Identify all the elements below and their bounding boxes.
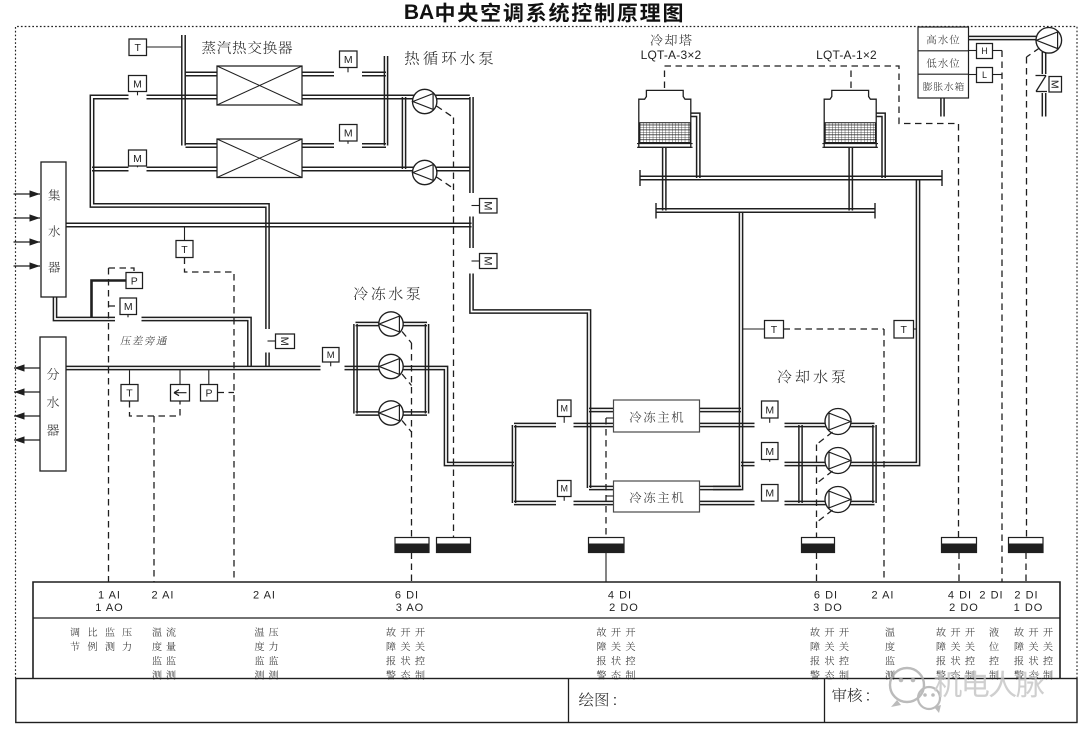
motor valve M HX1 steam (340, 51, 358, 72)
steam heat exchanger 2 (217, 139, 302, 178)
IO count col10 (1014, 590, 1044, 615)
svg-text:M: M (1049, 80, 1061, 89)
IO desc col3 温度压力监测 (255, 627, 278, 679)
motor valve M condenser 1 (762, 401, 779, 423)
svg-text::: : (613, 692, 617, 709)
temperature sensor T distributor (121, 370, 138, 401)
HX1 outlet pipe to pump 1 (302, 95, 470, 98)
hot return pipe to HX1 w/ valve gap (90, 95, 269, 329)
IO desc col7 温度监测 (885, 627, 895, 679)
expansion make-up pump (1036, 28, 1062, 54)
expansion tank drain stub (941, 98, 944, 117)
chiller 1 return stub (589, 408, 614, 411)
DDC bar chillers (589, 538, 625, 583)
HX2 outlet pipe to pump 2 (302, 167, 470, 170)
motor valve M condenser mid (762, 443, 779, 462)
label 压差旁通 (120, 336, 167, 346)
pressure sensor P distributor (201, 370, 218, 401)
control line hot pumps to DDC (437, 106, 454, 538)
IO count col2 (152, 590, 175, 602)
svg-text:M: M (278, 337, 290, 346)
chilled pump A pipe (356, 322, 428, 325)
chiller 2 inlet pipe w/ valve gap (514, 501, 614, 504)
chilled pump group left manifold (354, 324, 357, 414)
hot pump header lower (470, 274, 591, 489)
svg-text:T: T (135, 42, 142, 54)
svg-text:L: L (982, 70, 987, 80)
DDC bar cooling pumps (802, 538, 835, 583)
motor valve M chilled main (323, 348, 340, 367)
hot pump header upper (470, 97, 473, 193)
control line H/L sensors to DDC (1001, 51, 1003, 583)
label 冷冻水泵 (354, 287, 420, 301)
svg-text:T: T (126, 388, 133, 400)
svg-text:2 AI: 2 AI (152, 590, 175, 602)
chilled supply main pipe after valve (345, 366, 515, 465)
pressure sensor P bypass (92, 273, 143, 318)
chilled pump A (379, 312, 403, 336)
hot circulation pump 2 (413, 160, 437, 184)
label LQT-A-3x2 (641, 48, 702, 62)
IO desc col8 (936, 627, 975, 679)
DDC bar cooling towers (942, 538, 977, 583)
IO count col5 (608, 590, 639, 615)
HX1 top pipe left (186, 72, 218, 75)
cooling pump 1 pipe (801, 423, 875, 426)
svg-text:2 DI: 2 DI (1014, 590, 1038, 602)
cooling pump 2 (825, 448, 851, 474)
IO count col4 (395, 590, 424, 615)
svg-text:6 DI: 6 DI (395, 590, 419, 602)
expansion pump down pipe lower (1042, 93, 1045, 117)
svg-text:T: T (901, 324, 908, 336)
cooling tower 1 LQT-A-3 (637, 90, 693, 147)
svg-text:M: M (481, 201, 493, 210)
expansion tank box (918, 27, 969, 98)
control line distributor T/F to DDC (130, 401, 181, 582)
temperature sensor T steam (129, 39, 182, 56)
collector return pipe (66, 223, 472, 226)
L level sensor (969, 68, 1003, 83)
temperature sensor T tower supply (894, 321, 916, 339)
IO desc col4 故障报警开关状态控制 (386, 627, 425, 679)
HX2 top pipe right w/ valve gap (302, 144, 386, 147)
pump suction cross pipe (402, 97, 405, 169)
cooling pump 3 pipe (801, 501, 875, 504)
steam riser pipe to T (182, 35, 185, 146)
motor valve M chiller 2 inlet (558, 481, 572, 501)
steam riser 2 (384, 56, 387, 146)
DDC bar expansion pump (1009, 538, 1044, 583)
check valve (1036, 76, 1048, 92)
motor valve M condenser 2 (762, 485, 779, 502)
cooling pump 1 (825, 409, 851, 435)
svg-text:P: P (131, 275, 138, 287)
chilled pump C pipe (356, 412, 428, 415)
distributor 分水器 box (40, 337, 66, 471)
svg-text:M: M (133, 78, 142, 90)
svg-text:4 DI: 4 DI (608, 590, 632, 602)
cooling pump group left manifold (799, 425, 802, 503)
cooling pump 3 (825, 487, 851, 513)
cooling pump group right manifold (873, 425, 876, 503)
motor valve M header lower (472, 254, 498, 269)
cooling tower 2 LQT-A-1 (822, 90, 878, 147)
DDC bar hot pumps (437, 538, 471, 553)
motor valve M HX1 supply (129, 76, 147, 96)
control line bypass P/M to DDC (109, 268, 135, 582)
svg-text:2 AI: 2 AI (253, 590, 276, 602)
svg-text:M: M (765, 488, 774, 500)
IO count col6 (813, 590, 843, 615)
chilled pump group right manifold (425, 324, 428, 414)
collector inlet arrows (14, 190, 41, 269)
header 2 end caps (656, 203, 875, 219)
svg-text:M: M (124, 301, 133, 313)
chiller inlet manifold (512, 425, 515, 503)
chiller 2 condenser stub (700, 486, 742, 489)
temperature sensor T collector (176, 227, 193, 257)
chiller 1 冷冻主机 (614, 400, 700, 432)
svg-text:1 AI: 1 AI (98, 590, 121, 602)
svg-text:M: M (327, 350, 335, 361)
svg-text:4 DI: 4 DI (948, 590, 972, 602)
chiller 2 condenser outlet w/ valve gap (700, 501, 801, 504)
condenser riser (713, 212, 743, 490)
svg-text:1 DO: 1 DO (1014, 602, 1044, 614)
svg-text:2 DI: 2 DI (979, 590, 1003, 602)
svg-text:M: M (561, 484, 569, 494)
label LQT-A-1x2 (816, 48, 877, 62)
hot pump header middle (470, 217, 473, 249)
watermark 机电人脉 logo (890, 668, 1044, 713)
cooling pump 2 pipe / discharge (801, 179, 920, 466)
svg-text:P: P (205, 388, 212, 400)
cooling tower return header (656, 209, 875, 212)
motor valve M hot side (268, 334, 295, 349)
svg-text:3 AO: 3 AO (396, 602, 424, 614)
collector 集水器 box (41, 162, 66, 297)
motor valve M HX2 supply (129, 150, 147, 167)
label 冷却塔 (651, 34, 692, 46)
svg-text:T: T (771, 324, 778, 336)
cooling tower supply header (640, 176, 942, 179)
chiller 1 inlet pipe w/ valve gap (514, 423, 614, 426)
tower 1 outlet pipe (691, 113, 700, 178)
IO desc col1 调节比例监测压力 (70, 627, 131, 651)
control line chilled pumps to DDC (402, 332, 412, 538)
IO desc col10 (1014, 627, 1053, 679)
IO desc col9 液位控制 (989, 627, 999, 679)
H level sensor (969, 44, 1003, 59)
control line collector T / P to DDC (185, 258, 235, 583)
label 蒸汽热交换器 (202, 41, 292, 54)
expansion pump valve M (1049, 77, 1062, 93)
svg-text:BA: BA (404, 1, 434, 24)
chiller 2 冷冻主机 (614, 481, 700, 512)
chiller 1 condenser outlet w/ valve gap (700, 423, 801, 426)
svg-text:LQT-A-3×2: LQT-A-3×2 (641, 48, 702, 62)
IO table frame (33, 582, 1060, 679)
DDC bar chilled pumps (395, 538, 429, 583)
svg-text:2 DO: 2 DO (609, 602, 639, 614)
IO desc col6 (810, 627, 849, 679)
hot side valve pipe segment (266, 353, 269, 367)
control line chillers to DDC (606, 418, 614, 538)
svg-text:M: M (765, 446, 774, 458)
svg-text:2 AI: 2 AI (872, 590, 895, 602)
svg-text:M: M (344, 54, 353, 66)
steam heat exchanger 1 (217, 66, 302, 105)
IO count col9 (979, 590, 1003, 602)
chilled supply main pipe (66, 366, 321, 369)
svg-text:M: M (765, 404, 774, 416)
flow switch distributor (171, 370, 190, 401)
control line expansion pump to DDC (1027, 48, 1040, 538)
header 1 end caps (640, 170, 942, 186)
distributor outlet arrows (14, 364, 40, 443)
control line cooling pumps to DDC (817, 432, 833, 538)
IO desc col5 (597, 627, 636, 679)
tower 2 outlet pipe (876, 113, 885, 178)
condenser middle pipe w/ valve gap (741, 462, 801, 465)
svg-text::: : (866, 688, 870, 705)
hot supply branch pipe to HX2 w/ valve gap (92, 167, 217, 170)
IO count col7 (872, 590, 895, 602)
hot circulation pump 1 (413, 89, 437, 113)
svg-text:LQT-A-1×2: LQT-A-1×2 (816, 48, 877, 62)
motor valve M chiller 1 inlet (558, 400, 572, 423)
expansion tank outlet pipe (969, 36, 1038, 39)
collector bottom pipe w/ bypass valve gap (53, 297, 251, 366)
svg-text:3 DO: 3 DO (813, 602, 843, 614)
label 热循环水泵 (405, 51, 493, 65)
label 审核 (832, 688, 870, 705)
svg-text:M: M (133, 153, 142, 165)
title BA中央空调系统控制原理图 (404, 1, 682, 24)
control line cooling towers to DDC (665, 66, 959, 538)
control line condenser T sensors to DDC (784, 329, 885, 582)
svg-text:H: H (981, 46, 988, 56)
motor valve M bypass (120, 298, 137, 317)
svg-text:M: M (344, 128, 353, 140)
svg-text:M: M (561, 403, 569, 413)
HX1 top pipe right w/ valve gap (302, 72, 386, 75)
temperature sensor T condenser supply (743, 321, 784, 339)
motor valve M header upper (472, 199, 498, 214)
IO count col3 (253, 590, 276, 602)
chiller 1 condenser stub (700, 408, 742, 411)
svg-text:T: T (181, 244, 188, 256)
svg-text:6 DI: 6 DI (814, 590, 838, 602)
tower 1 leg pipe (663, 147, 666, 210)
title block box (16, 679, 1077, 723)
tower 2 leg pipe (849, 147, 852, 210)
expansion pump down pipe upper (1042, 52, 1045, 74)
motor valve M HX2 steam (340, 125, 358, 144)
IO count col8 (948, 590, 979, 615)
label 绘图 (579, 692, 617, 709)
HX2 top pipe left (186, 144, 218, 147)
chiller 2 return stub (589, 486, 614, 489)
svg-text:1 AO: 1 AO (95, 602, 123, 614)
chilled pump B (379, 354, 403, 378)
IO desc col2 温度流量监测 (152, 627, 175, 679)
chilled pump C (379, 401, 403, 425)
svg-text:M: M (481, 256, 493, 265)
IO count col1 (95, 590, 123, 615)
label 冷却水泵 (778, 370, 846, 384)
svg-text:2 DO: 2 DO (949, 602, 979, 614)
